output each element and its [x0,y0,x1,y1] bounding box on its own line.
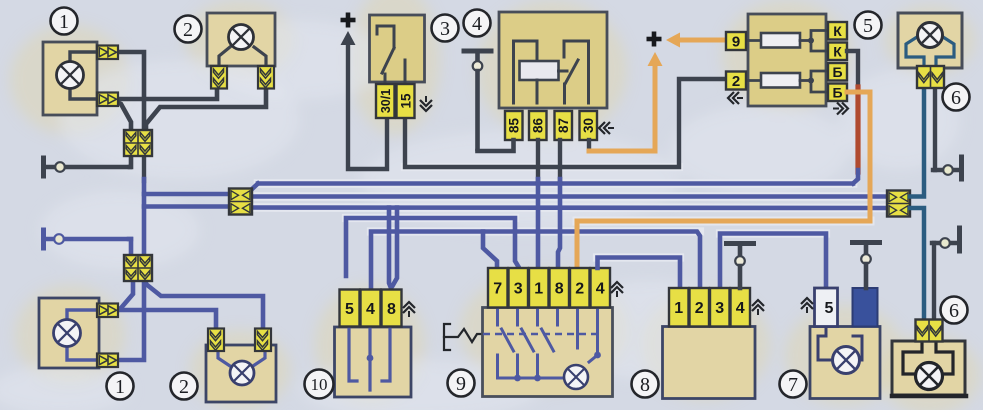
harness mark at indicator [801,298,813,313]
svg-text:3: 3 [514,281,523,298]
wire comp6-bottom pin to chassis (dark) [932,243,936,321]
svg-text:1: 1 [59,11,69,33]
svg-text:87: 87 [556,118,571,133]
svg-text:15: 15 [398,93,413,109]
wire ground-blue to lower 4way [129,239,131,257]
label 3 [432,15,459,42]
svg-text:Б: Б [832,64,842,80]
terminal B1 of fuse block [828,63,847,81]
svg-text:10: 10 [311,375,328,394]
wire lamp1-bottom upper pin to repeater2-bottom [116,310,216,330]
power feed arrow up (orange) [648,52,663,66]
connector lamp6-bottom [916,320,943,342]
wire lower 4way diagonal to repeater2-bottom right [146,279,263,330]
svg-text:1: 1 [115,376,125,398]
label 6 (top) [943,84,970,111]
terminal 5 of indicator [815,288,838,327]
label 8 [632,371,659,398]
svg-text:30/1: 30/1 [379,89,393,113]
chassis ground top right [933,157,962,179]
wire fuse 9 to + (orange arrow left) [666,33,726,48]
harness mark at ignition [420,96,432,111]
connector inline left harness [229,189,252,215]
wire hazard pin4 to cluster pin1 (blue) [598,258,681,290]
connector repeater2-bottom left [208,329,224,352]
lamp 6 rear turn signal (bottom right) [892,341,966,396]
connector repeater2-top right [258,66,274,89]
wire B2 (orange) to hazard pin 2 [577,92,870,269]
power + symbol left [341,13,356,28]
harness mark at relay [599,122,614,134]
harness mark at switch 10 [403,302,415,317]
wire cluster pin3 to indicator 5 (blue) [720,234,826,290]
svg-text:8: 8 [387,301,396,318]
svg-text:7: 7 [493,281,502,298]
wire 4way to inline connector (dark-blue splice) [144,156,231,257]
wire L3 stub to comp6-bottom (teal) [910,208,924,321]
svg-text:4: 4 [366,301,375,318]
terminal 2 of hazard switch [570,268,590,308]
connector lamp1-top upper [97,46,118,60]
relay 4 turn signal flasher [499,12,607,108]
wire hazard feed C (blue, pins 4-7 / 8-2) [371,232,700,289]
ground at indicator 7 [853,243,880,289]
harness mark at fuse terminal B [833,103,848,115]
terminal 7 of hazard switch [488,268,508,308]
svg-text:2: 2 [183,19,193,41]
wire L3 to switch pin 8 [389,208,397,289]
wire relay 30 to + (orange) [589,66,655,151]
wire relay 86 to hazard pin 1 (dark-blue) [536,140,540,269]
connector repeater2-top left [211,66,227,89]
terminal 8 of hazard switch [550,268,570,308]
terminal 4 of cluster [731,288,751,327]
wire lamp1-top lower pin diagonal to 4way [115,101,131,130]
connector 4-way upper left [124,130,152,156]
connector repeater2-bottom right [255,329,271,352]
connector lamp6-top [917,66,944,88]
power feed arrow up (dark) [341,31,356,45]
svg-text:86: 86 [531,118,546,134]
wire lamp1-top lower pin to repeater2-top [115,90,217,99]
ground at cluster pin 4 [727,244,754,289]
wire comp6-top to chassis (dark) [933,88,937,170]
svg-text:4: 4 [472,13,482,35]
ground bottom-left (blue) [44,230,132,248]
indicator lamp 7 [810,327,880,399]
svg-text:5: 5 [345,301,354,318]
label 2 (bottom) [171,373,198,400]
terminal K2 of fuse block [828,43,847,61]
svg-text:7: 7 [788,374,798,396]
svg-text:3: 3 [440,18,450,40]
hazard switch 9 [483,308,613,397]
svg-text:4: 4 [736,300,745,317]
ignition switch 3 [370,15,425,84]
harness mark at hazard switch [611,282,623,297]
svg-text:9: 9 [732,33,740,50]
svg-text:8: 8 [640,374,650,396]
label 2 (top) [175,16,202,43]
terminal 2 of fuse block [726,72,746,90]
svg-text:2: 2 [575,281,584,298]
wire bundle line L1 (blue, fuse K2 feed) [251,184,853,191]
label 7 [780,371,807,398]
svg-text:6: 6 [951,87,961,109]
lamp 1 front turn signal (top left) [43,42,117,115]
connector lamp1-bottom upper [97,304,118,318]
terminal 30 of relay [580,111,598,140]
instrument cluster 8 [663,327,756,399]
terminal 8 of switch 10 [382,290,402,327]
terminal 4 of switch 10 [361,290,381,327]
turn signal switch 10 [335,327,412,397]
terminal 1 of cluster [669,288,689,327]
connector inline right harness [887,191,910,217]
wire turn-switch feed B (blue, pins 5-3) [346,218,518,276]
wire repeater2-top right pin down-left to 4way [146,88,266,130]
fuse block 5 with fuses F [746,14,827,106]
terminal 9 of fuse block [726,32,746,50]
chassis ground bottom right [932,228,960,251]
terminal 85 of relay [505,111,523,140]
lamp 6 rear turn signal (top right) [898,13,962,68]
label 10 [305,370,334,399]
svg-text:9: 9 [456,373,466,395]
ground top-left [44,158,131,176]
label 5 [855,12,882,39]
wire bundle line L3 (blue) [248,205,888,210]
svg-text:2: 2 [179,376,189,398]
wire lower 4way to lamp1-bottom upper pin [116,279,133,310]
terminal 5 of switch 10 [340,290,360,327]
wire casings [248,167,888,258]
terminal 1 of hazard switch [529,268,549,308]
svg-text:85: 85 [507,118,522,134]
label 6 (bottom) [941,297,968,324]
svg-text:1: 1 [674,300,683,317]
lamp 1 front turn signal (bottom left) [39,298,116,368]
terminal 87 of relay [555,111,573,140]
terminal 3 of cluster [710,288,730,327]
svg-text:3: 3 [715,300,724,317]
connector 4-way lower left [124,255,152,281]
terminal 2 of cluster [690,288,710,327]
harness mark at fuse terminal 2 [728,92,743,104]
svg-text:1: 1 [534,281,543,298]
label 1 (bottom) [107,373,134,400]
power + symbol right [647,32,662,47]
wire lamp1-top upper pin to connector 4way [117,52,144,130]
svg-text:30: 30 [581,118,596,133]
svg-text:Б: Б [832,84,842,100]
connector lamp1-top lower [97,93,118,107]
svg-text:2: 2 [732,73,740,90]
wire ground to 4way left pin [130,158,131,167]
svg-text:2: 2 [695,300,704,317]
wire K2 down (dark/red) to line L1 [847,51,858,184]
label 1 (top) [51,8,78,35]
terminal 86 of relay [529,111,547,140]
wire relay 87 to hazard pin 8 (dark-blue) [558,140,560,269]
label 4 [464,10,491,37]
svg-text:6: 6 [949,300,959,322]
label 9 [448,370,475,397]
ground at relay 85 [464,51,514,151]
terminal 4 of hazard switch [591,268,611,308]
wire ignition 15 line (dark) [405,79,724,167]
wire C tap to pin7 [483,232,497,269]
wire bundle line L2 (blue) [248,194,888,199]
lamp 2 side repeater (bottom) [206,345,276,402]
lamp 2 side repeater (top) [207,13,275,66]
svg-text:К: К [833,23,842,39]
terminal 30/1 of ignition [376,84,395,118]
terminal 15 of ignition [397,84,415,118]
mechanical link bracket of hazard switch [444,324,482,350]
harness mark at cluster [752,300,764,315]
svg-text:5: 5 [825,300,834,317]
terminal B2 of fuse block [828,84,847,102]
connector lamp1-bottom lower [97,354,118,368]
terminal blue block of indicator [853,288,878,327]
terminal K1 of fuse block [828,22,847,40]
svg-text:4: 4 [596,281,605,298]
wire lower 4way to lamp1-bottom lower pin [116,279,144,360]
terminal 3 of hazard switch [509,268,529,308]
svg-text:8: 8 [555,281,564,298]
wire battery feed to ignition 30/1 (dark) [348,44,387,169]
wire L2 stub to comp6-top (teal) [910,88,924,197]
svg-text:5: 5 [863,15,873,37]
svg-text:К: К [833,43,842,59]
